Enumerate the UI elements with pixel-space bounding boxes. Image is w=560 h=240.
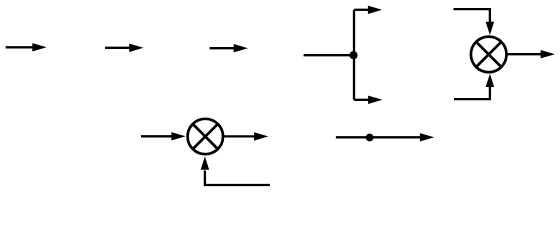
multiplier M1 circle (471, 37, 507, 73)
multiplier M2 output arrow (224, 132, 269, 140)
multiplier M2 input arrow (141, 132, 186, 140)
branch input wire (304, 54, 354, 56)
multiplier M1 output arrow (507, 50, 555, 58)
branch top arm arrow (354, 6, 382, 14)
wire with junction dot (336, 133, 434, 141)
arrow A3 (210, 44, 248, 52)
multiplier M2 feedback wire (201, 156, 270, 185)
arrow A2 (105, 44, 144, 52)
junction dot on wire (366, 134, 374, 142)
branch bottom arm arrow (354, 96, 382, 104)
multiplier M2 cross (193, 124, 218, 149)
multiplier M1 cross (476, 42, 501, 67)
branch vertical wire (353, 10, 355, 100)
multiplier M2 circle (188, 119, 223, 154)
multiplier M1 bottom input wire (454, 74, 494, 99)
branch junction dot (349, 51, 357, 59)
arrow A1 (6, 43, 47, 51)
multiplier M1 top input wire (454, 9, 495, 35)
